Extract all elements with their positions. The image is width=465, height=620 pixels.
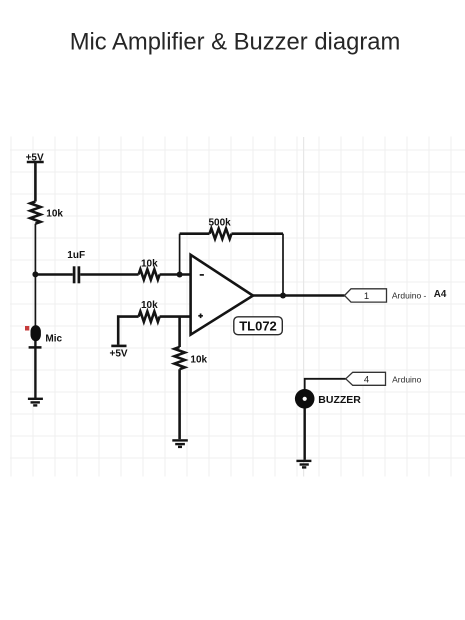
svg-text:10k: 10k	[141, 259, 158, 270]
grid artifact darker vertical line	[303, 137, 305, 477]
mic bottom terminal bar	[29, 346, 42, 349]
wire R4 to op-amp non-inverting input	[160, 315, 191, 318]
resistor R2 10k horizontal (inverting input)	[139, 269, 160, 279]
op-amp plus sign	[198, 314, 203, 319]
connector flag pin 1 (to Arduino A4)	[345, 289, 387, 302]
svg-text:Arduino -: Arduino -	[392, 291, 427, 301]
connector flag pin 4 (buzzer to Arduino)	[346, 372, 386, 385]
wire node A to capacitor	[35, 273, 72, 276]
wire feedback top right segment	[232, 232, 284, 235]
wire buzzer stem down to ground	[304, 408, 306, 460]
node C junction dot (output / feedback)	[280, 293, 286, 299]
wire node A to mic	[34, 274, 36, 325]
svg-text:10k: 10k	[141, 300, 158, 311]
svg-text:Mic Amplifier & Buzzer diagram: Mic Amplifier & Buzzer diagram	[70, 29, 401, 56]
resistor R5 10k vertical to ground	[174, 347, 184, 369]
wire +5V corner to R4	[118, 317, 138, 345]
wire feedback right vertical	[282, 234, 284, 296]
wire R2 to op-amp inverting input	[160, 273, 191, 276]
svg-text:A4: A4	[434, 289, 447, 300]
wire op-amp output	[253, 294, 345, 297]
op-amp minus sign	[200, 274, 204, 276]
svg-text:TL072: TL072	[239, 319, 277, 334]
grid background	[10, 137, 465, 477]
wire R5 to ground	[178, 369, 181, 439]
wire capacitor to R2	[80, 273, 138, 276]
part label TL072 box	[234, 317, 282, 335]
svg-text:1: 1	[364, 291, 369, 302]
svg-text:1uF: 1uF	[67, 250, 85, 261]
svg-text:Mic: Mic	[45, 334, 62, 345]
ground GND1 under mic	[28, 399, 43, 406]
wire R1 bottom to node A	[34, 224, 36, 275]
svg-text:10k: 10k	[190, 355, 207, 366]
wire feedback top left segment	[180, 232, 210, 235]
ground GND2 under R5	[172, 440, 188, 447]
microphone MIC1 body	[25, 325, 41, 341]
wire junction to R5 vertical	[178, 317, 181, 347]
wire feedback left vertical	[179, 234, 181, 275]
op-amp U1 TL072 triangle	[191, 255, 253, 335]
svg-text:+5V: +5V	[26, 152, 44, 163]
wire buzzer to flag 4	[305, 379, 346, 390]
power +5V lower symbol bar	[111, 345, 126, 348]
svg-text:Arduino: Arduino	[392, 375, 422, 385]
svg-text:BUZZER: BUZZER	[318, 394, 361, 406]
resistor R1 10k vertical	[30, 202, 40, 224]
svg-text:10k: 10k	[46, 209, 63, 220]
svg-text:500k: 500k	[209, 218, 232, 229]
node A junction dot	[32, 271, 38, 277]
svg-text:4: 4	[364, 374, 369, 385]
wire mic bottom stub	[34, 339, 36, 347]
node B junction dot (inverting input / feedback)	[177, 272, 183, 278]
power +5V top-left symbol	[27, 162, 44, 202]
ground GND3 under buzzer	[296, 461, 311, 468]
buzzer BZ1 body	[295, 389, 315, 409]
svg-text:+5V: +5V	[110, 349, 128, 360]
capacitor C1 1uF plates	[74, 266, 79, 283]
resistor R4 10k horizontal (non-inverting input)	[139, 311, 160, 321]
wire mic to ground	[34, 347, 36, 398]
resistor R3 500k feedback	[210, 229, 232, 239]
